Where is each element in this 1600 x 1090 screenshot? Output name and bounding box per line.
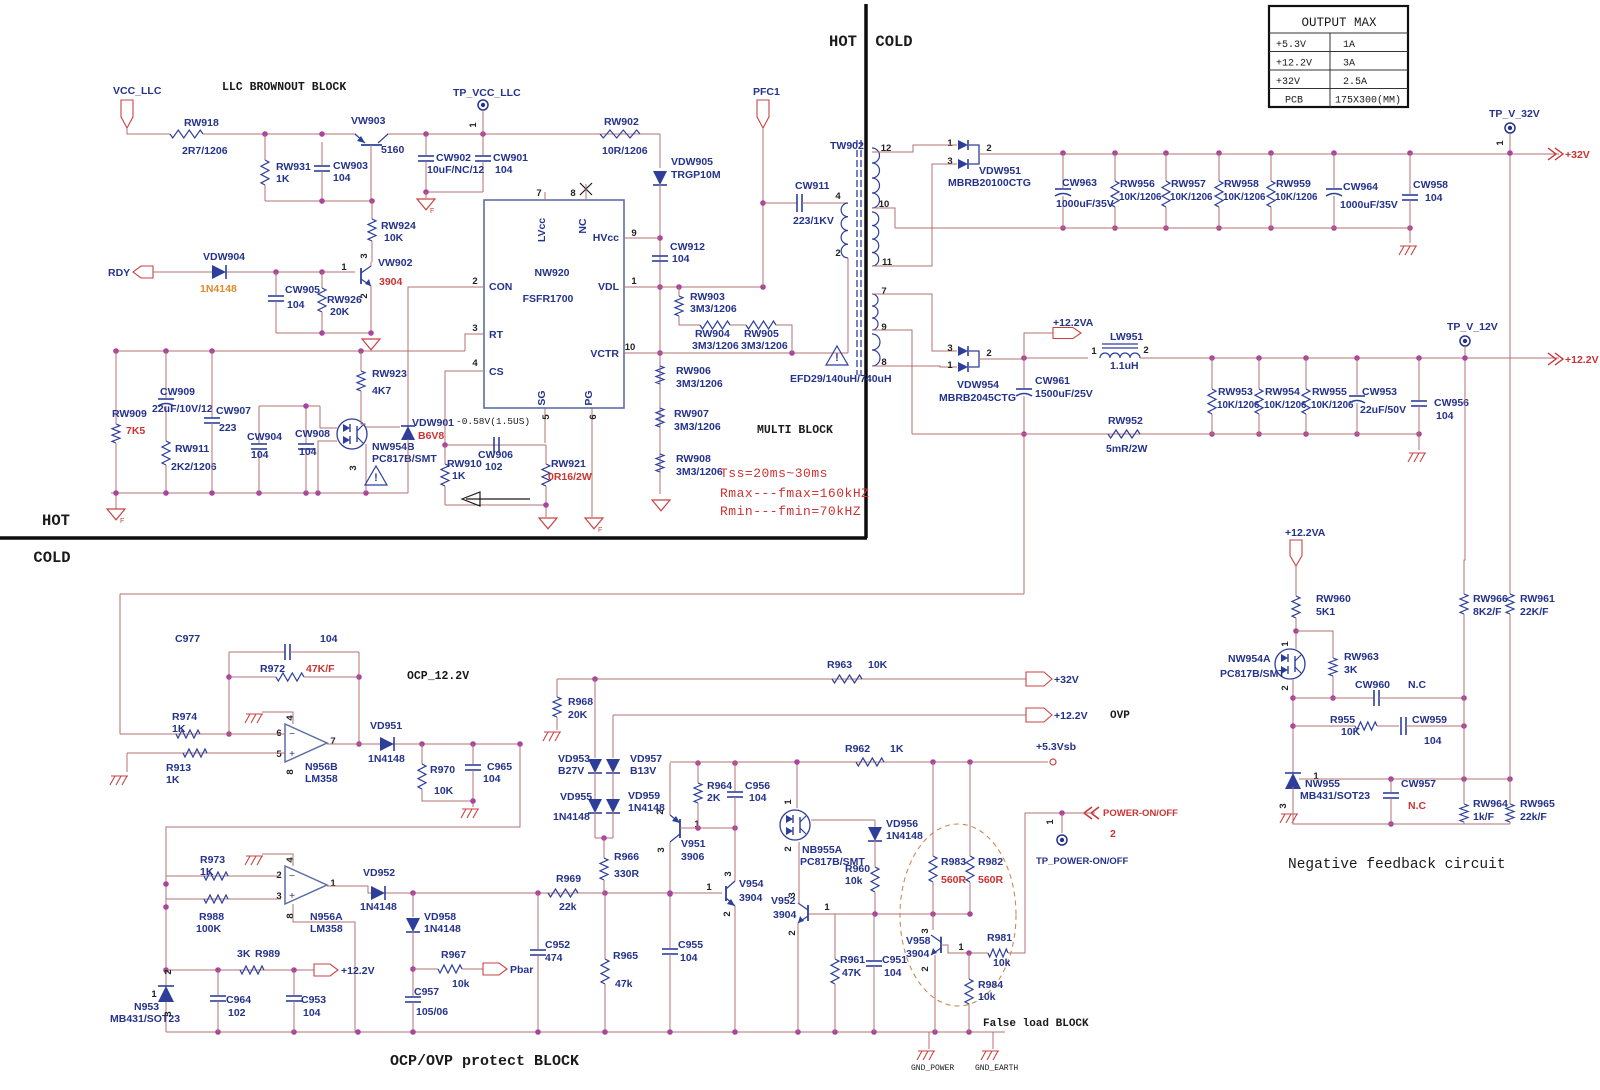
svg-text:RW954: RW954 (1265, 386, 1300, 398)
svg-text:7: 7 (881, 286, 886, 297)
svg-text:3: 3 (920, 928, 931, 933)
svg-text:TP_VCC_LLC: TP_VCC_LLC (453, 87, 521, 99)
svg-text:9: 9 (631, 228, 636, 239)
svg-text:TW902: TW902 (830, 140, 864, 152)
svg-text:TRGP10M: TRGP10M (671, 169, 721, 181)
svg-text:8: 8 (570, 188, 575, 199)
svg-text:OCP/OVP protect BLOCK: OCP/OVP protect BLOCK (390, 1053, 579, 1070)
svg-text:RW906: RW906 (676, 365, 711, 377)
svg-text:F: F (430, 208, 434, 215)
svg-text:1K: 1K (276, 173, 290, 185)
svg-text:C951: C951 (882, 954, 907, 966)
svg-text:8K2/F: 8K2/F (1473, 606, 1502, 618)
svg-text:5: 5 (541, 414, 552, 420)
svg-text:VD953: VD953 (558, 753, 590, 765)
svg-text:8: 8 (285, 913, 296, 918)
svg-text:R913: R913 (166, 762, 191, 774)
svg-text:20K: 20K (568, 709, 588, 721)
svg-text:8: 8 (285, 769, 296, 774)
svg-text:VDW954: VDW954 (957, 379, 999, 391)
svg-text:+: + (289, 749, 295, 760)
svg-text:NB955A: NB955A (802, 844, 843, 856)
svg-text:RW910: RW910 (447, 458, 482, 470)
svg-text:CW957: CW957 (1401, 778, 1436, 790)
svg-text:2K: 2K (707, 792, 721, 804)
svg-text:RW959: RW959 (1276, 178, 1311, 190)
svg-text:N956B: N956B (305, 761, 338, 773)
svg-text:TP_POWER-ON/OFF: TP_POWER-ON/OFF (1036, 856, 1129, 867)
svg-text:R960: R960 (845, 863, 870, 875)
svg-text:3A: 3A (1343, 59, 1355, 70)
svg-text:102: 102 (228, 1007, 246, 1019)
svg-text:TP_V_12V: TP_V_12V (1447, 321, 1498, 333)
svg-text:104: 104 (1424, 735, 1442, 747)
svg-text:RW904: RW904 (695, 328, 730, 340)
svg-text:R982: R982 (978, 856, 1003, 868)
svg-text:CW906: CW906 (478, 449, 513, 461)
svg-text:3: 3 (787, 892, 798, 897)
svg-text:1N4148: 1N4148 (360, 901, 397, 913)
svg-text:2: 2 (472, 276, 477, 287)
svg-text:B6V8: B6V8 (418, 430, 444, 442)
svg-text:RW952: RW952 (1108, 415, 1143, 427)
svg-text:F: F (120, 518, 124, 525)
svg-text:!: ! (835, 352, 839, 364)
svg-text:3: 3 (163, 1011, 174, 1016)
svg-text:RT: RT (489, 329, 504, 341)
svg-text:R964: R964 (707, 780, 732, 792)
svg-text:560R: 560R (941, 874, 967, 886)
svg-text:2: 2 (1143, 345, 1148, 356)
svg-text:2: 2 (722, 911, 733, 916)
svg-text:3: 3 (348, 465, 359, 470)
svg-text:VD958: VD958 (424, 911, 456, 923)
svg-text:10K/1206: 10K/1206 (1217, 400, 1260, 411)
svg-text:3904: 3904 (906, 948, 930, 960)
svg-text:1: 1 (1045, 819, 1056, 825)
svg-text:1: 1 (631, 276, 637, 287)
svg-text:22K/F: 22K/F (1520, 606, 1549, 618)
svg-text:5mR/2W: 5mR/2W (1106, 443, 1148, 455)
svg-text:5K1: 5K1 (1316, 606, 1335, 618)
svg-text:HOT: HOT (42, 512, 70, 530)
svg-text:SG: SG (536, 390, 548, 405)
svg-text:CW905: CW905 (285, 284, 320, 296)
svg-text:RW956: RW956 (1120, 178, 1155, 190)
svg-text:2: 2 (986, 348, 991, 359)
svg-text:3: 3 (947, 343, 952, 354)
svg-text:LM358: LM358 (305, 773, 338, 785)
svg-text:+32V: +32V (1054, 674, 1079, 686)
svg-text:4: 4 (285, 715, 296, 721)
svg-text:RW902: RW902 (604, 116, 639, 128)
svg-text:R961: R961 (840, 954, 865, 966)
svg-text:MULTI BLOCK: MULTI BLOCK (757, 424, 833, 437)
svg-text:CW908: CW908 (295, 428, 330, 440)
svg-text:B27V: B27V (558, 765, 584, 777)
svg-text:104: 104 (884, 967, 902, 979)
svg-text:VD955: VD955 (560, 791, 592, 803)
svg-text:1N4148: 1N4148 (424, 923, 461, 935)
svg-text:OUTPUT MAX: OUTPUT MAX (1301, 16, 1377, 30)
svg-text:223: 223 (219, 422, 237, 434)
svg-text:10k: 10k (452, 978, 470, 990)
svg-text:CW911: CW911 (795, 180, 830, 192)
svg-text:5: 5 (276, 749, 282, 760)
svg-text:22k: 22k (559, 901, 577, 913)
svg-text:MBRB20100CTG: MBRB20100CTG (948, 177, 1031, 189)
svg-text:3M3/1206: 3M3/1206 (690, 303, 737, 315)
svg-text:Pbar: Pbar (510, 964, 533, 976)
svg-text:C957: C957 (414, 986, 439, 998)
svg-text:2: 2 (1280, 685, 1291, 690)
svg-text:1N4148: 1N4148 (200, 283, 237, 295)
svg-text:1: 1 (947, 360, 953, 371)
svg-text:Rmin---fmin=70kHZ: Rmin---fmin=70kHZ (720, 504, 861, 519)
svg-text:−: − (289, 871, 295, 882)
svg-text:CW912: CW912 (670, 241, 705, 253)
svg-text:330R: 330R (614, 868, 640, 880)
svg-text:1: 1 (1495, 140, 1506, 146)
svg-text:VD959: VD959 (628, 790, 660, 802)
svg-text:CW907: CW907 (216, 405, 251, 417)
svg-text:1K: 1K (200, 866, 214, 878)
svg-text:10K: 10K (868, 659, 888, 671)
svg-text:3K: 3K (237, 948, 251, 960)
svg-text:4: 4 (835, 191, 841, 202)
svg-text:223/1KV: 223/1KV (793, 215, 834, 227)
svg-text:R983: R983 (941, 856, 966, 868)
svg-text:104: 104 (1436, 410, 1454, 422)
svg-text:LVcc: LVcc (536, 218, 548, 242)
svg-text:5160: 5160 (381, 144, 405, 156)
svg-text:R955: R955 (1330, 714, 1355, 726)
svg-text:175X300(MM): 175X300(MM) (1335, 95, 1401, 107)
svg-text:RW961: RW961 (1520, 593, 1555, 605)
svg-text:CW960: CW960 (1355, 679, 1390, 691)
svg-text:R989: R989 (255, 948, 280, 960)
svg-text:V951: V951 (681, 838, 706, 850)
svg-text:1: 1 (1091, 346, 1097, 357)
svg-text:2: 2 (163, 969, 174, 974)
svg-text:PFC1: PFC1 (753, 86, 780, 98)
svg-text:10K/1206: 10K/1206 (1170, 192, 1213, 203)
svg-text:1A: 1A (1343, 40, 1355, 51)
svg-text:10K/1206: 10K/1206 (1264, 400, 1307, 411)
svg-text:10: 10 (625, 342, 636, 353)
svg-text:22k/F: 22k/F (1520, 811, 1547, 823)
svg-text:R963: R963 (827, 659, 852, 671)
svg-text:1: 1 (151, 989, 157, 1000)
svg-text:VD956: VD956 (886, 818, 918, 830)
svg-text:10K/1206: 10K/1206 (1311, 400, 1354, 411)
svg-text:PG: PG (583, 390, 595, 405)
svg-text:10R/1206: 10R/1206 (602, 145, 648, 157)
svg-text:VD951: VD951 (370, 720, 402, 732)
svg-text:10K: 10K (384, 232, 404, 244)
svg-text:1: 1 (341, 262, 347, 273)
svg-text:2: 2 (835, 248, 840, 259)
svg-text:R968: R968 (568, 696, 593, 708)
svg-text:104: 104 (672, 253, 690, 265)
svg-text:N.C: N.C (1408, 800, 1427, 812)
svg-text:2.5A: 2.5A (1343, 77, 1367, 88)
svg-text:HOT: HOT (829, 33, 857, 51)
svg-text:MBRB2045CTG: MBRB2045CTG (939, 392, 1016, 404)
svg-text:3: 3 (656, 847, 667, 852)
svg-text:2: 2 (1110, 828, 1116, 840)
svg-text:1N4148: 1N4148 (368, 753, 405, 765)
svg-text:9: 9 (881, 322, 886, 333)
svg-text:VCTR: VCTR (590, 348, 619, 360)
svg-text:GND_POWER: GND_POWER (911, 1064, 954, 1073)
svg-text:104: 104 (320, 633, 338, 645)
svg-text:3M3/1206: 3M3/1206 (741, 340, 788, 352)
svg-text:R967: R967 (441, 949, 466, 961)
svg-text:False load BLOCK: False load BLOCK (983, 1018, 1089, 1030)
svg-text:7: 7 (536, 188, 541, 199)
svg-text:1: 1 (1313, 771, 1319, 782)
svg-text:1N4148: 1N4148 (553, 811, 590, 823)
svg-text:104: 104 (680, 952, 698, 964)
svg-text:RW926: RW926 (327, 294, 362, 306)
svg-text:!: ! (374, 472, 378, 484)
svg-text:104: 104 (287, 299, 305, 311)
svg-text:R965: R965 (613, 950, 638, 962)
svg-text:C952: C952 (545, 939, 570, 951)
svg-text:Negative feedback circuit: Negative feedback circuit (1288, 857, 1506, 873)
svg-text:C964: C964 (226, 994, 251, 1006)
svg-text:B13V: B13V (630, 765, 656, 777)
svg-text:PCB: PCB (1285, 96, 1303, 107)
svg-text:RDY: RDY (108, 267, 130, 279)
svg-text:+12.2V: +12.2V (1565, 354, 1599, 366)
svg-text:RW907: RW907 (674, 408, 709, 420)
svg-text:1: 1 (783, 799, 794, 805)
svg-text:R972: R972 (260, 663, 285, 675)
svg-text:VDL: VDL (598, 281, 620, 293)
svg-text:VDW904: VDW904 (203, 251, 245, 263)
svg-text:47K: 47K (842, 967, 862, 979)
svg-text:1: 1 (330, 878, 336, 889)
svg-text:6: 6 (588, 414, 599, 419)
svg-text:3: 3 (1278, 803, 1289, 808)
svg-text:V958: V958 (906, 935, 931, 947)
svg-text:R962: R962 (845, 743, 870, 755)
svg-text:RW931: RW931 (276, 161, 311, 173)
svg-text:22uF/10V/12: 22uF/10V/12 (152, 403, 213, 415)
svg-text:10k: 10k (978, 991, 996, 1003)
svg-text:47K/F: 47K/F (306, 663, 335, 675)
svg-text:10K/1206: 10K/1206 (1119, 192, 1162, 203)
svg-text:CW901: CW901 (493, 152, 528, 164)
svg-text:4: 4 (285, 857, 296, 863)
svg-text:EFD29/140uH/740uH: EFD29/140uH/740uH (790, 373, 892, 385)
svg-text:LW951: LW951 (1110, 331, 1143, 343)
svg-text:RW918: RW918 (184, 117, 219, 129)
svg-text:102: 102 (485, 461, 503, 473)
svg-text:−: − (289, 729, 295, 740)
svg-text:2: 2 (655, 809, 666, 814)
svg-text:NW954B: NW954B (372, 441, 415, 453)
svg-text:N956A: N956A (310, 911, 343, 923)
svg-text:PC817B/SMT: PC817B/SMT (372, 453, 437, 465)
svg-text:+32V: +32V (1276, 77, 1300, 88)
svg-text:3: 3 (276, 891, 281, 902)
svg-text:CW953: CW953 (1362, 386, 1397, 398)
svg-text:+5.3Vsb: +5.3Vsb (1036, 741, 1076, 753)
svg-text:2: 2 (986, 143, 991, 154)
svg-text:2: 2 (920, 966, 931, 971)
svg-text:104: 104 (303, 1007, 321, 1019)
svg-text:3904: 3904 (773, 909, 797, 921)
svg-text:CW964: CW964 (1343, 181, 1378, 193)
svg-text:R970: R970 (430, 764, 455, 776)
svg-text:RW905: RW905 (744, 328, 779, 340)
svg-text:RW957: RW957 (1171, 178, 1206, 190)
svg-text:3906: 3906 (681, 851, 705, 863)
svg-text:HVcc: HVcc (593, 232, 619, 244)
svg-text:CW956: CW956 (1434, 397, 1469, 409)
svg-text:1k/F: 1k/F (1473, 811, 1495, 823)
svg-text:1K: 1K (452, 470, 466, 482)
svg-text:VW903: VW903 (351, 115, 386, 127)
svg-text:VCC_LLC: VCC_LLC (113, 85, 162, 97)
svg-text:R981: R981 (987, 932, 1012, 944)
svg-text:3: 3 (472, 323, 477, 334)
svg-text:RW903: RW903 (690, 291, 725, 303)
svg-text:NW954A: NW954A (1228, 653, 1271, 665)
svg-text:3M3/1206: 3M3/1206 (676, 466, 723, 478)
svg-text:1: 1 (947, 138, 953, 149)
svg-text:3904: 3904 (379, 276, 403, 288)
svg-text:2K2/1206: 2K2/1206 (171, 461, 217, 473)
svg-text:RW908: RW908 (676, 453, 711, 465)
svg-text:R966: R966 (614, 851, 639, 863)
svg-text:+: + (289, 891, 295, 902)
svg-text:1K: 1K (890, 743, 904, 755)
svg-text:10K: 10K (434, 785, 454, 797)
svg-text:3: 3 (947, 156, 952, 167)
svg-text:N.C: N.C (1408, 679, 1427, 691)
svg-text:+12.2V: +12.2V (1054, 710, 1088, 722)
svg-text:3M3/1206: 3M3/1206 (674, 421, 721, 433)
svg-text:1500uF/25V: 1500uF/25V (1035, 388, 1093, 400)
svg-text:RW965: RW965 (1520, 798, 1555, 810)
svg-text:3904: 3904 (739, 892, 763, 904)
svg-text:1K: 1K (166, 774, 180, 786)
svg-text:CW963: CW963 (1062, 177, 1097, 189)
svg-text:CW958: CW958 (1413, 179, 1448, 191)
svg-text:2R7/1206: 2R7/1206 (182, 145, 228, 157)
svg-text:3M3/1206: 3M3/1206 (692, 340, 739, 352)
svg-text:47k: 47k (615, 978, 633, 990)
svg-text:RW911: RW911 (175, 443, 209, 455)
svg-text:Tss=20ms~30ms: Tss=20ms~30ms (720, 466, 828, 481)
svg-text:V954: V954 (739, 878, 764, 890)
svg-text:TP_V_32V: TP_V_32V (1489, 108, 1540, 120)
svg-text:C977: C977 (175, 633, 200, 645)
svg-text:3: 3 (723, 871, 734, 876)
svg-text:105/06: 105/06 (416, 1006, 448, 1018)
svg-text:0R16/2W: 0R16/2W (548, 471, 592, 483)
svg-text:NW920: NW920 (534, 267, 569, 279)
svg-text:VDW901: VDW901 (412, 417, 454, 429)
svg-text:104: 104 (483, 773, 501, 785)
svg-text:LM358: LM358 (310, 923, 343, 935)
svg-text:CON: CON (489, 281, 512, 293)
svg-text:560R: 560R (978, 874, 1004, 886)
svg-text:3M3/1206: 3M3/1206 (676, 378, 723, 390)
svg-text:VDW951: VDW951 (979, 165, 1021, 177)
svg-text:104: 104 (299, 446, 317, 458)
svg-text:7K5: 7K5 (126, 425, 145, 437)
svg-text:4K7: 4K7 (372, 385, 391, 397)
svg-text:C956: C956 (745, 780, 770, 792)
svg-text:CW902: CW902 (436, 152, 471, 164)
svg-text:RW960: RW960 (1316, 593, 1351, 605)
svg-text:RW953: RW953 (1218, 386, 1253, 398)
svg-text:PC817B/SMT: PC817B/SMT (1220, 668, 1285, 680)
svg-text:3K: 3K (1344, 664, 1358, 676)
svg-text:Rmax---fmax=160kHZ: Rmax---fmax=160kHZ (720, 486, 869, 501)
svg-text:C953: C953 (301, 994, 326, 1006)
svg-text:R969: R969 (556, 873, 581, 885)
svg-text:RW958: RW958 (1224, 178, 1259, 190)
svg-text:10K/1206: 10K/1206 (1223, 192, 1266, 203)
svg-text:1K: 1K (172, 723, 186, 735)
svg-text:NC: NC (577, 218, 589, 234)
svg-text:F: F (598, 527, 602, 534)
svg-text:1000uF/35V: 1000uF/35V (1056, 198, 1114, 210)
svg-text:CS: CS (489, 366, 504, 378)
svg-text:RW921: RW921 (551, 458, 586, 470)
svg-text:10K/1206: 10K/1206 (1275, 192, 1318, 203)
svg-text:-0.58V(1.5US): -0.58V(1.5US) (456, 416, 530, 427)
svg-text:1N4148: 1N4148 (886, 830, 923, 842)
svg-text:RW963: RW963 (1344, 651, 1379, 663)
svg-text:10k: 10k (845, 875, 863, 887)
svg-text:N953: N953 (134, 1001, 159, 1013)
svg-text:104: 104 (251, 449, 269, 461)
svg-text:VD957: VD957 (630, 753, 662, 765)
svg-text:FSFR1700: FSFR1700 (523, 293, 574, 305)
svg-text:2: 2 (787, 930, 798, 935)
svg-text:100K: 100K (196, 923, 222, 935)
svg-text:104: 104 (333, 172, 351, 184)
svg-text:VW902: VW902 (378, 257, 413, 269)
svg-text:+12.2V: +12.2V (1276, 59, 1312, 70)
svg-text:1: 1 (706, 882, 712, 893)
svg-text:+32V: +32V (1565, 149, 1590, 161)
svg-text:OCP_12.2V: OCP_12.2V (407, 670, 469, 683)
svg-text:R973: R973 (200, 854, 225, 866)
svg-text:VDW905: VDW905 (671, 156, 713, 168)
svg-text:+12.2V: +12.2V (341, 965, 375, 977)
svg-text:GND_EARTH: GND_EARTH (975, 1064, 1018, 1073)
svg-text:22uF/50V: 22uF/50V (1360, 404, 1406, 416)
svg-text:RW966: RW966 (1473, 593, 1508, 605)
svg-text:COLD: COLD (33, 549, 70, 567)
svg-text:R974: R974 (172, 711, 197, 723)
svg-text:10uF/NC/12: 10uF/NC/12 (427, 164, 484, 176)
svg-text:104: 104 (749, 792, 767, 804)
svg-text:CW904: CW904 (247, 431, 282, 443)
svg-text:RW909: RW909 (112, 408, 147, 420)
svg-text:C965: C965 (487, 761, 512, 773)
svg-text:1: 1 (824, 902, 830, 913)
svg-text:RW955: RW955 (1312, 386, 1347, 398)
